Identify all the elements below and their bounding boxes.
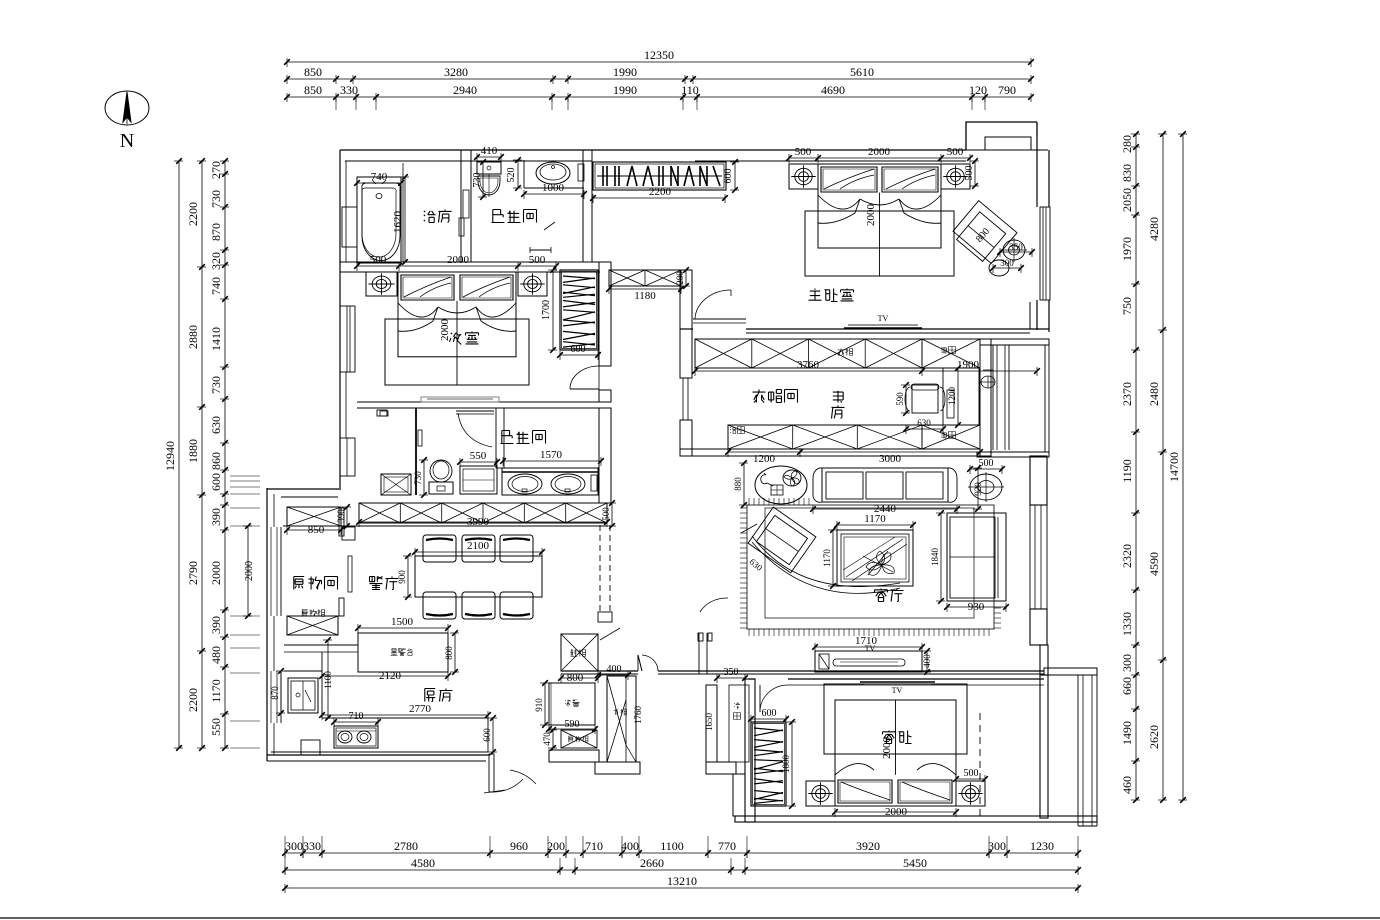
door entry: [600, 628, 658, 671]
label master bedroom: [809, 289, 854, 302]
label dining: [370, 577, 399, 590]
hall cabinet 3990: [359, 503, 607, 523]
svg-text:400: 400: [621, 839, 639, 853]
bed master: [805, 164, 954, 276]
svg-text:830: 830: [1120, 164, 1134, 182]
wall master bottom: [680, 329, 1049, 333]
label small yujin: [730, 427, 744, 434]
nightstand master left: [789, 164, 818, 189]
round table living: [755, 466, 807, 504]
window living right: [1030, 505, 1047, 609]
svg-text:3990: 3990: [467, 516, 490, 528]
sofa 2seat right: [947, 513, 1006, 601]
cabinet storage bottom: [287, 616, 338, 635]
svg-text:1990: 1990: [613, 83, 637, 97]
svg-text:480: 480: [209, 646, 223, 664]
dim 1840 v: [930, 510, 945, 604]
svg-text:4690: 4690: [821, 83, 845, 97]
label wc1: [492, 210, 537, 223]
svg-text:1200: 1200: [753, 453, 776, 465]
svg-text:13210: 13210: [667, 874, 697, 888]
floor lamp living: [968, 472, 1004, 502]
carpet living: [747, 505, 994, 629]
svg-text:1990: 1990: [613, 65, 637, 79]
svg-text:3000: 3000: [879, 453, 902, 465]
dim 740 bathtub: [354, 171, 404, 188]
svg-text:400: 400: [922, 654, 932, 668]
dim left inner: [209, 158, 229, 751]
label guest bedroom: [883, 731, 912, 744]
dim top row2 850/3280/1990/5610: [284, 65, 1034, 84]
kitchen top line: [284, 645, 358, 652]
lamp symbol wardrobe: [981, 370, 995, 388]
svg-text:730: 730: [472, 173, 483, 188]
svg-text:590: 590: [895, 392, 905, 406]
svg-text:630: 630: [917, 418, 931, 428]
svg-text:910: 910: [534, 698, 544, 712]
svg-text:390: 390: [209, 616, 223, 634]
dim 900 dining v: [397, 553, 412, 600]
dim 1700 wardrobe2: [541, 267, 557, 353]
svg-text:2050: 2050: [1120, 188, 1134, 212]
label cold shaft: [734, 703, 741, 720]
decor curve living: [741, 524, 900, 593]
svg-text:600: 600: [723, 169, 734, 184]
svg-text:460: 460: [1120, 776, 1134, 794]
svg-text:2620: 2620: [1147, 725, 1161, 749]
shower glass door: [459, 165, 464, 236]
svg-text:300: 300: [988, 839, 1006, 853]
svg-text:930: 930: [968, 601, 985, 613]
svg-text:1800: 1800: [781, 755, 791, 774]
svg-text:960: 960: [510, 839, 528, 853]
wall wardrobe left (x680-692): [680, 420, 692, 456]
svg-text:300: 300: [1000, 258, 1014, 268]
dim 2770: [319, 703, 491, 720]
dim 590 fridge: [546, 719, 598, 734]
label kitchen: [425, 689, 453, 702]
wall right below window: [1030, 300, 1049, 332]
dim 3990: [356, 516, 610, 528]
svg-text:2100: 2100: [467, 540, 490, 552]
toilet bath2: [429, 460, 453, 494]
wall kitchen bottom: [267, 755, 490, 761]
svg-text:2370: 2370: [1120, 382, 1134, 406]
svg-text:TV: TV: [865, 644, 876, 653]
svg-text:1000: 1000: [542, 182, 565, 194]
svg-text:280: 280: [675, 271, 685, 285]
door bath2: [456, 411, 494, 447]
guest door arc: [755, 699, 782, 701]
corridor dashed lines: [600, 525, 610, 612]
svg-text:N: N: [120, 130, 134, 152]
svg-text:730: 730: [209, 190, 223, 208]
svg-text:740: 740: [371, 171, 388, 183]
tall cabinet hallway: [607, 676, 636, 762]
label bedroom2: [450, 332, 479, 345]
svg-text:12940: 12940: [163, 441, 177, 471]
svg-text:2660: 2660: [640, 856, 664, 870]
svg-text:3280: 3280: [444, 65, 468, 79]
dim top row3 850/330/2940/1990/110/4690/120/790: [284, 83, 1034, 102]
svg-text:4580: 4580: [411, 856, 435, 870]
wall below balcony (y452-456): [977, 452, 1049, 457]
tv shelf bedroom2: [421, 397, 499, 402]
label study: [832, 391, 845, 419]
cabinet below fridge: [561, 730, 597, 748]
svg-text:390: 390: [336, 509, 346, 523]
svg-text:2880: 2880: [186, 325, 200, 349]
dim bottom row1: [282, 839, 1081, 858]
svg-text:900: 900: [397, 570, 407, 584]
svg-text:TV: TV: [878, 314, 889, 323]
svg-text:1410: 1410: [209, 327, 223, 351]
cabinet 850 storage top: [287, 507, 341, 526]
svg-text:2000: 2000: [447, 254, 470, 266]
dim 1500 bar: [355, 616, 451, 633]
svg-text:500: 500: [795, 146, 812, 158]
dining chairs top: [423, 535, 533, 562]
window storage left: [267, 527, 281, 616]
mirror cabinet bath2: [380, 411, 388, 416]
chair study: [905, 384, 945, 413]
dim 520 sink v: [506, 157, 522, 191]
svg-text:1700: 1700: [541, 300, 552, 320]
closet top wardrobe room: [695, 339, 980, 368]
stool master: [989, 238, 1027, 276]
svg-text:600: 600: [209, 473, 223, 491]
svg-text:1880: 1880: [186, 439, 200, 463]
window left bath2: [340, 438, 355, 476]
svg-text:2000: 2000: [209, 561, 223, 585]
svg-text:600: 600: [571, 344, 586, 355]
dim 1620 bath vert: [392, 174, 409, 265]
window bump bath left: [342, 207, 357, 247]
dim 1650 shaft rot: [704, 713, 714, 732]
svg-text:2770: 2770: [409, 703, 432, 715]
dimension extension lines: [230, 97, 1078, 874]
wall below kitchen step: [549, 750, 640, 774]
dim 2100 dining: [412, 540, 545, 557]
kitchen counter left: [284, 652, 322, 718]
dim 2200 closet: [590, 186, 728, 203]
svg-text:590: 590: [565, 719, 580, 730]
wall bath row bottom (y262-272): [340, 262, 600, 272]
svg-text:1840: 1840: [930, 548, 940, 567]
bed bedroom2: [385, 272, 529, 385]
dim 2440 sofa: [810, 503, 960, 515]
svg-text:870: 870: [209, 223, 223, 241]
label small bookshelf1: [941, 347, 955, 354]
svg-text:410: 410: [481, 145, 498, 157]
towel bar wc1: [530, 222, 555, 253]
breakfast bar: [358, 633, 448, 672]
svg-text:280: 280: [1120, 135, 1134, 153]
wall guest left: [745, 679, 755, 822]
svg-text:730: 730: [209, 376, 223, 394]
svg-text:520: 520: [506, 168, 517, 183]
dim 300 stool: [990, 258, 1024, 273]
dim 1200/3000 living top: [725, 448, 983, 465]
wall top-right step: [966, 122, 1048, 150]
washing machine: [381, 474, 411, 495]
svg-text:1500: 1500: [391, 616, 414, 628]
coffee table living: [837, 530, 913, 586]
svg-text:14700: 14700: [1167, 452, 1181, 482]
svg-text:500: 500: [601, 507, 611, 521]
dim 590 chair: [895, 382, 910, 416]
dim 730 bath2: [413, 457, 428, 498]
dim top overall 12350: [284, 48, 1034, 67]
dining chairs bottom: [423, 592, 533, 619]
wall master left (x680-692): [680, 270, 692, 378]
wardrobe guest: [751, 722, 786, 806]
dim 1710 tv: [812, 635, 925, 652]
kitchen sink: [288, 678, 318, 713]
wardrobe bedroom2: [560, 270, 598, 350]
entry door frame marks: [698, 633, 712, 674]
label storage cabinet small: [302, 610, 324, 617]
dim 600 closet v: [723, 159, 739, 193]
svg-text:1620: 1620: [392, 211, 404, 234]
dim 390 v: [336, 504, 351, 529]
dim 2120 bar: [319, 670, 451, 682]
svg-text:110: 110: [681, 83, 699, 97]
nightstand bedroom2 left: [366, 272, 397, 296]
dim 500 lamp: [967, 458, 1005, 474]
svg-text:790: 790: [998, 83, 1016, 97]
svg-text:300: 300: [285, 839, 303, 853]
svg-text:5450: 5450: [903, 856, 927, 870]
wall exterior top (y150-161) x340-966: [340, 150, 966, 161]
dim 400 tv v: [922, 648, 932, 675]
bathtub: [357, 177, 401, 263]
svg-text:2000: 2000: [868, 146, 891, 158]
svg-text:880: 880: [733, 477, 743, 491]
dim left overall 12940: [163, 158, 183, 751]
wall bath/shower divider: [461, 150, 471, 262]
svg-text:4590: 4590: [1147, 552, 1161, 576]
svg-text:1230: 1230: [1030, 839, 1054, 853]
dim 1000 sink: [521, 182, 587, 199]
dim 1800 guest v: [781, 719, 796, 809]
sink counter wc1: [524, 160, 584, 188]
svg-text:800: 800: [567, 672, 584, 684]
svg-text:200: 200: [547, 839, 565, 853]
svg-text:330: 330: [340, 83, 358, 97]
stove: [334, 726, 378, 748]
wall bedroom2 bottom (y402-408): [357, 402, 611, 408]
svg-text:TV: TV: [892, 686, 903, 695]
svg-text:800: 800: [444, 646, 454, 660]
svg-text:500: 500: [964, 768, 979, 779]
svg-text:500: 500: [370, 254, 387, 266]
svg-text:5610: 5610: [850, 65, 874, 79]
dim 910 fridge v: [534, 680, 549, 728]
label small cabinet top: [838, 349, 853, 356]
svg-text:2790: 2790: [186, 561, 200, 585]
svg-text:630: 630: [209, 416, 223, 434]
dim 500/2000/500 master: [786, 146, 973, 163]
chair master corner: [950, 201, 1017, 267]
bathtub niche wall: [402, 163, 404, 262]
svg-text:2940: 2940: [453, 83, 477, 97]
svg-text:730: 730: [413, 471, 423, 485]
dim 350 stool: [997, 242, 1035, 257]
svg-text:2000: 2000: [244, 561, 255, 581]
tv cabinet living: [815, 651, 922, 672]
dim right overall 14700: [1167, 131, 1187, 803]
svg-text:750: 750: [1120, 297, 1134, 315]
twin sink counter: [502, 468, 598, 495]
svg-text:500: 500: [947, 146, 964, 158]
dim 410 toilet: [474, 145, 504, 162]
nightstand guest right: [956, 781, 985, 806]
dim 920 lamp v: [973, 465, 983, 512]
label TV living: [865, 644, 876, 653]
door storage sliding: [348, 556, 352, 592]
dim bottom row2: [282, 856, 1081, 875]
dim 550 bath2: [457, 450, 500, 467]
door guest: [760, 685, 788, 712]
wall living right lower: [1030, 609, 1047, 645]
dim 500/2000/500 below bath: [354, 254, 559, 271]
svg-text:1570: 1570: [540, 449, 563, 461]
arc near kitchen door: [510, 770, 536, 784]
desk study: [943, 368, 979, 425]
dim right mid 4280/2480/4590/2620: [1147, 131, 1167, 803]
svg-text:1970: 1970: [1120, 237, 1134, 261]
svg-text:120: 120: [969, 83, 987, 97]
nightstand bedroom2 right: [518, 272, 547, 296]
toilet wc1: [477, 162, 501, 197]
door master: [693, 290, 746, 323]
bed guest: [824, 684, 967, 806]
svg-text:600: 600: [482, 728, 492, 742]
wall guest right: [1040, 675, 1048, 818]
dim left mid 2200/2880/1880/2790/2200: [186, 158, 206, 751]
drawing frame bottom edge: [0, 917, 1380, 919]
wall guest bottom: [735, 816, 1097, 826]
north arrow: [105, 91, 149, 152]
wall exterior left storage: [267, 488, 274, 761]
svg-text:1490: 1490: [1120, 721, 1134, 745]
window master right: [1040, 207, 1050, 300]
svg-text:770: 770: [718, 839, 736, 853]
svg-text:390: 390: [209, 508, 223, 526]
dim 600 v kitchen: [482, 715, 497, 755]
label wardrobe room: [753, 390, 798, 403]
window left bedroom: [340, 306, 355, 372]
window guest bay right: [1078, 675, 1097, 826]
wall balcony mid-right top: [980, 339, 1049, 345]
window kitchen left: [267, 671, 281, 723]
armchair living: [748, 507, 816, 573]
dining table: [415, 556, 542, 597]
wall exterior left upper x340: [340, 150, 346, 488]
dim 630 chair: [903, 418, 946, 434]
wall balcony column: [980, 339, 991, 456]
dim 1200 desk: [947, 365, 962, 428]
dim 1170 table v: [822, 527, 837, 589]
svg-text:500: 500: [979, 458, 994, 469]
dim 630 armchair rot: [748, 557, 765, 574]
wall left between windows: [345, 372, 347, 438]
wall wc1 right (x583-592): [583, 150, 592, 262]
label small bookshelf2: [941, 432, 955, 439]
wall wardrobe/study bottom (y449-456): [680, 449, 980, 456]
dim 1760 rot: [633, 706, 643, 725]
svg-text:1170: 1170: [864, 513, 886, 525]
svg-text:600: 600: [762, 708, 777, 719]
dim 400 entry: [595, 664, 631, 680]
wall entry top (y671-674): [561, 671, 1044, 674]
dim 350 entry right: [714, 667, 748, 683]
dim 600 guest wardrobe: [748, 708, 789, 724]
dim 2000 master rot: [865, 204, 877, 227]
dim 930: [944, 601, 1009, 613]
dim 710 stove: [331, 711, 381, 727]
svg-text:2480: 2480: [1147, 382, 1161, 406]
dim 2000 bed2 rot: [439, 319, 451, 342]
wall exterior right master x1037-1049: [1037, 137, 1049, 207]
svg-text:850: 850: [304, 83, 322, 97]
svg-text:1190: 1190: [1120, 459, 1134, 483]
svg-text:1100: 1100: [660, 839, 684, 853]
dim 880 v living: [733, 460, 748, 508]
dim 600 wardrobe2: [557, 344, 601, 360]
wall step to guest bay: [1040, 645, 1097, 675]
svg-text:1180: 1180: [634, 290, 656, 302]
wall storage right (x338-344): [339, 508, 355, 616]
dim 1180: [606, 285, 684, 302]
svg-text:350: 350: [724, 667, 739, 678]
dim 280 v: [675, 267, 690, 289]
dim 850: [284, 524, 344, 536]
closet bottom study: [728, 425, 980, 449]
svg-text:4280: 4280: [1147, 217, 1161, 241]
carpet fringe: [740, 498, 1001, 636]
dim 1100 counter v: [323, 637, 333, 721]
dim 1570 sinks: [500, 449, 604, 466]
svg-text:1170: 1170: [822, 549, 832, 567]
closet top (2200): [593, 162, 726, 190]
tv line guest: [860, 682, 935, 695]
svg-text:920: 920: [973, 482, 983, 496]
svg-text:3760: 3760: [797, 359, 820, 371]
dim bottom row3: [282, 874, 1081, 893]
svg-text:1760: 1760: [633, 706, 643, 725]
wall bedroom2 right (x599-611): [599, 262, 611, 402]
svg-text:330: 330: [303, 839, 321, 853]
svg-text:850: 850: [304, 65, 322, 79]
svg-text:2000: 2000: [865, 204, 877, 227]
label wc2: [501, 431, 546, 444]
corridor wall stub: [598, 612, 612, 622]
svg-text:850: 850: [308, 524, 325, 536]
dim 500 guest: [953, 768, 988, 784]
nightstand master right: [941, 164, 970, 189]
svg-text:3920: 3920: [856, 839, 880, 853]
dim 800 entry: [558, 672, 601, 684]
dim 2000 guest: [832, 806, 959, 818]
dim 3760/1900: [692, 359, 1040, 376]
svg-text:740: 740: [209, 277, 223, 295]
svg-text:1330: 1330: [1120, 612, 1134, 636]
kitchen door leaf: [484, 754, 523, 793]
svg-text:870: 870: [270, 686, 280, 700]
door bedroom2: [570, 366, 599, 390]
